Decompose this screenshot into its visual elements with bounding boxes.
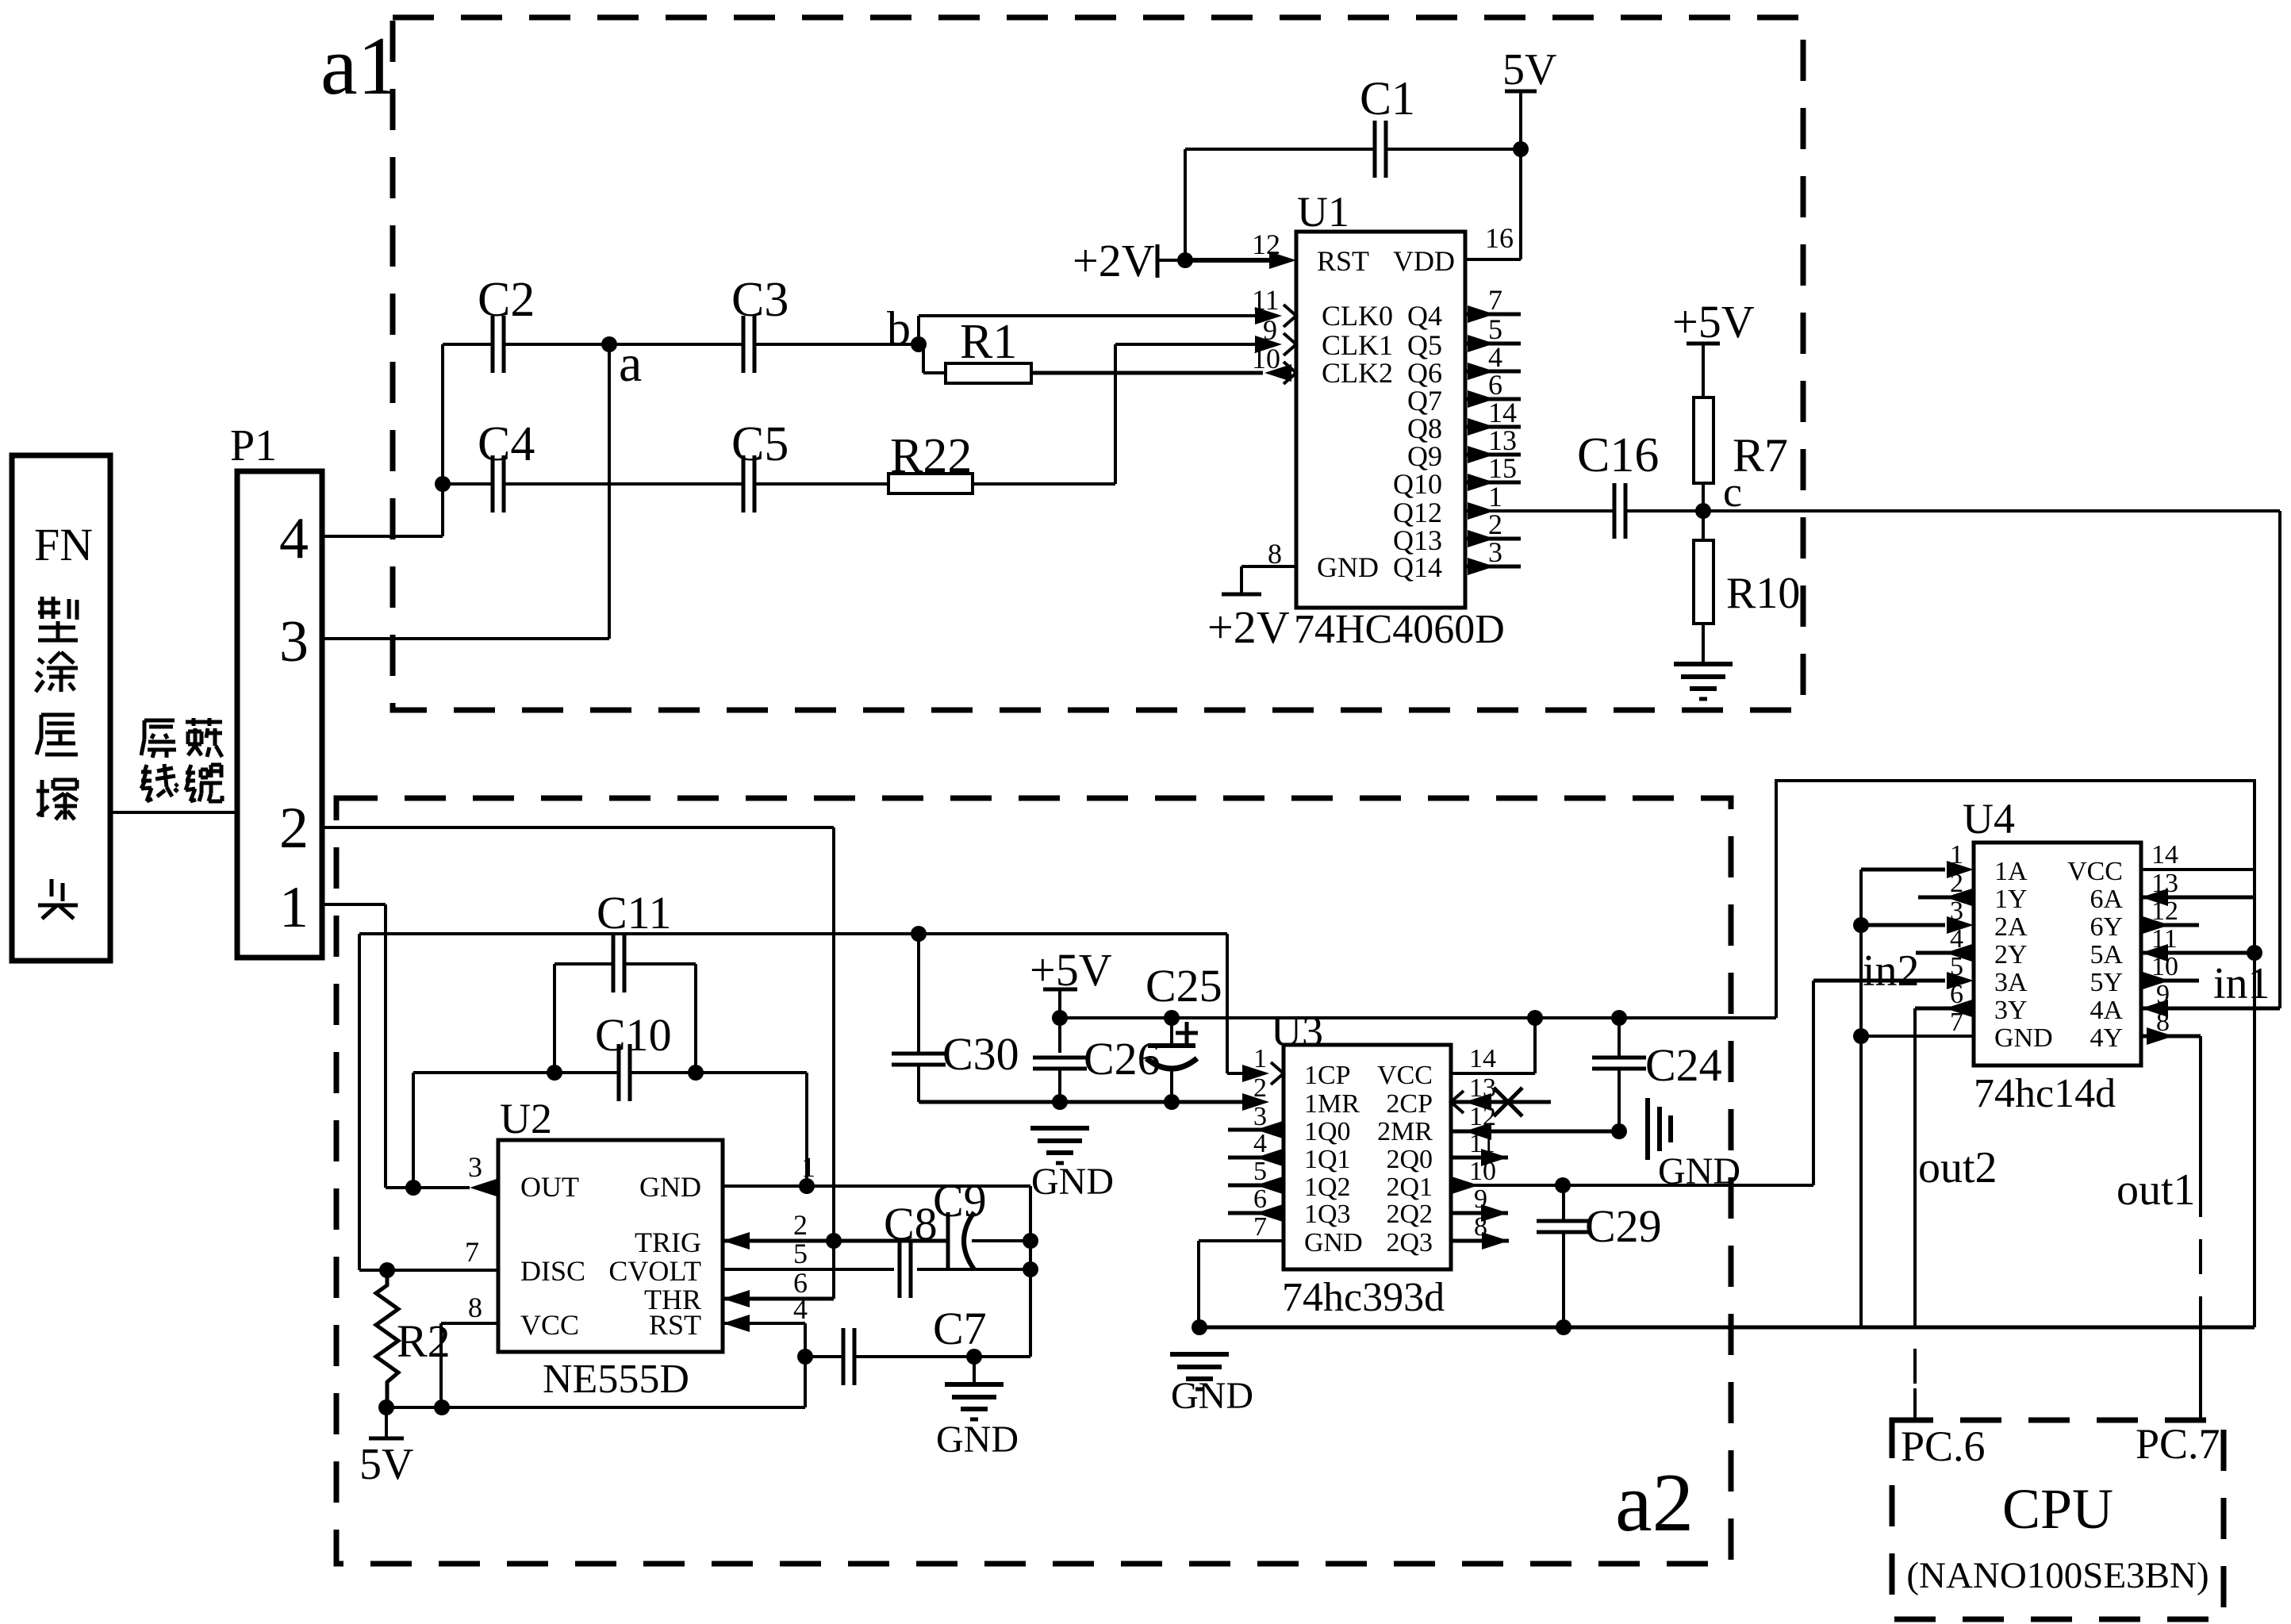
wire U4 4A pin9 (in1) (2141, 1007, 2280, 1011)
wire C10/C11 to pin1 GND (805, 1073, 808, 1186)
wire 5V drop (1519, 91, 1522, 149)
svg-text:2Q0: 2Q0 (1386, 1145, 1433, 1174)
resistor R7 (1694, 397, 1713, 483)
wire C11 right leg (694, 964, 697, 1073)
svg-text:6A: 6A (2090, 885, 2123, 914)
wire to 5V terminal (385, 1407, 388, 1438)
wire GND pin1 (723, 1184, 1030, 1188)
svg-text:in1: in1 (2213, 959, 2270, 1008)
wire C10 row right (630, 1071, 807, 1074)
junction U4 pin11 (2247, 945, 2262, 961)
wire b to CLK0 pin11 (919, 314, 1266, 317)
svg-text:CPU: CPU (2002, 1477, 2113, 1541)
wire C1 to 5V (1386, 148, 1521, 151)
svg-text:+2V: +2V (1207, 601, 1290, 653)
wire FN probe to P1 (110, 811, 237, 814)
wire down to 1CP (1226, 934, 1229, 1073)
svg-text:7: 7 (1253, 1212, 1267, 1242)
capacitor C5 (742, 455, 746, 513)
wire up to CLK1 row (1114, 344, 1117, 484)
no-connect X on pin13 (1494, 1088, 1522, 1116)
svg-text:7: 7 (465, 1236, 479, 1268)
wire node a vertical (608, 344, 611, 639)
capacitor C16 (1613, 483, 1617, 539)
svg-text:C2: C2 (478, 273, 535, 327)
capacitor C26 (1033, 1056, 1087, 1060)
svg-text:GND: GND (1031, 1161, 1114, 1203)
svg-text:VCC: VCC (520, 1309, 579, 1341)
junction +5V rail (1052, 1010, 1068, 1026)
svg-text:C10: C10 (595, 1009, 672, 1061)
svg-text:5A: 5A (2090, 940, 2123, 969)
wire C5 to R22 (754, 482, 888, 486)
wire to C1 (1185, 148, 1375, 151)
svg-text:4: 4 (279, 506, 309, 571)
wire +5V rail to U4 VCC (up/over/down) (1776, 781, 2255, 1327)
svg-text:U1: U1 (1297, 188, 1349, 236)
wire to C7 (805, 1355, 842, 1358)
module box a1 (dashed) (393, 17, 1803, 710)
junction OUT node (405, 1180, 421, 1196)
ground (U3 pin7) (1170, 1352, 1229, 1357)
svg-text:1: 1 (1488, 481, 1502, 513)
5V terminal tick (369, 1437, 404, 1441)
wire C29 bottom (1562, 1232, 1565, 1327)
svg-text:U4: U4 (1963, 795, 2015, 843)
wire VCC pin8 (441, 1322, 498, 1325)
wire right vertical (pin1 to C7 row) (1029, 1186, 1032, 1357)
svg-text:74hc393d: 74hc393d (1282, 1275, 1445, 1320)
svg-text:CLK1: CLK1 (1322, 329, 1393, 361)
junction C7/GND (966, 1349, 982, 1365)
wire 2Q0 pin11 stub (1451, 1156, 1508, 1160)
svg-text:2: 2 (793, 1209, 808, 1241)
svg-text:out2: out2 (1918, 1143, 1997, 1192)
svg-text:3: 3 (1488, 536, 1502, 568)
wire U4 6Y pin12 stub (2141, 923, 2199, 927)
svg-text:DISC: DISC (520, 1255, 585, 1287)
svg-text:15: 15 (1488, 452, 1517, 484)
svg-text:2Y: 2Y (1994, 940, 2028, 969)
wire DISC net left vertical (358, 934, 361, 1270)
junction C24 bottom (1611, 1123, 1627, 1139)
svg-text:14: 14 (1488, 397, 1517, 428)
svg-text:C29: C29 (1585, 1200, 1662, 1252)
wire C10 row left (413, 1071, 619, 1074)
ground (C26) (1030, 1126, 1089, 1131)
wire R10 to ground (1702, 624, 1705, 664)
wire U4 2Y pin4 stub (1916, 951, 1974, 955)
wire R22 right (973, 482, 1115, 486)
svg-text:U2: U2 (500, 1095, 552, 1142)
wire C7 right (855, 1355, 1030, 1358)
svg-text:Q10: Q10 (1393, 468, 1442, 500)
wire +5V to R7 (1702, 344, 1705, 397)
resistor R2 (zigzag) (376, 1270, 398, 1407)
resistor R1 (946, 363, 1031, 383)
ground (C7) (945, 1382, 1004, 1387)
wire U4 5Y pin10 stub (2141, 979, 2199, 983)
svg-text:Q9: Q9 (1407, 440, 1442, 472)
U1 right output pins Q4..Q14 (1465, 313, 1521, 317)
capacitor C3 (742, 316, 746, 373)
svg-text:R22: R22 (890, 429, 972, 483)
svg-text:2MR: 2MR (1377, 1117, 1433, 1146)
svg-text:5V: 5V (359, 1440, 413, 1489)
wire CVOLT pin5 to C8 (723, 1268, 894, 1271)
wire U4 5A pin11 (2141, 951, 2255, 955)
wire C1 left leg (1184, 149, 1187, 260)
svg-text:Q8: Q8 (1407, 413, 1442, 444)
svg-text:8: 8 (468, 1292, 482, 1323)
svg-text:1MR: 1MR (1304, 1089, 1360, 1119)
wire U4 1Y pin2 stub (1918, 896, 1974, 900)
5V terminal bar (1505, 90, 1537, 94)
svg-text:TRIG: TRIG (635, 1227, 701, 1258)
wire TRIG pin2 (723, 1239, 948, 1243)
wire GND rail long (1199, 1326, 2255, 1330)
wire C4 to C5 (504, 482, 743, 486)
svg-text:5: 5 (1488, 313, 1502, 345)
wire Q12 pin1 to C16 (1465, 509, 1614, 513)
wire to ground (C7) (973, 1357, 976, 1384)
svg-text:C8: C8 (884, 1198, 938, 1250)
svg-text:1Q3: 1Q3 (1304, 1200, 1351, 1229)
svg-text:74hc14d: 74hc14d (1974, 1071, 2116, 1116)
svg-text:GND: GND (1171, 1375, 1253, 1417)
wire +5V rail (1060, 1016, 1776, 1019)
junction U3 GND to rail (1192, 1319, 1207, 1335)
svg-text:C3: C3 (731, 273, 789, 327)
svg-text:C30: C30 (942, 1028, 1019, 1080)
svg-text:7: 7 (1488, 284, 1502, 316)
junction 1MR/GND (1052, 1094, 1068, 1110)
wire in2 to 3A pin5 (1813, 979, 1945, 983)
junction R2 bottom (378, 1399, 394, 1415)
wire VDD pin16 (1465, 258, 1521, 261)
svg-text:C5: C5 (731, 417, 789, 471)
capacitor C29 (1537, 1219, 1591, 1223)
shielded-cable label 屏蔽线缆 (144, 719, 175, 723)
arrow+chevron CLK2 (out) (1284, 362, 1296, 384)
wire RST pin4 (723, 1322, 805, 1325)
svg-text:FN: FN (34, 519, 93, 570)
junction C7 left (797, 1349, 813, 1365)
wire P1 pin1 (322, 903, 386, 906)
svg-text:1CP: 1CP (1304, 1061, 1351, 1090)
svg-text:2CP: 2CP (1386, 1089, 1433, 1119)
wire U3 2MR pin12 (1451, 1130, 1619, 1134)
resistor R10 (1694, 540, 1713, 624)
svg-text:PC.7: PC.7 (2136, 1420, 2220, 1468)
svg-text:13: 13 (1488, 424, 1517, 456)
svg-text:b: b (887, 302, 911, 355)
svg-text:3A: 3A (1994, 968, 2028, 997)
junction pin7 (1853, 1028, 1869, 1044)
wire in2 vertical (1812, 981, 1815, 1185)
svg-text:CLK0: CLK0 (1322, 300, 1393, 332)
wire U3 VCC pin14 (1451, 1072, 1535, 1075)
svg-text:C7: C7 (933, 1303, 987, 1354)
svg-text:GND: GND (936, 1419, 1019, 1461)
svg-text:P1: P1 (230, 421, 277, 470)
wire U4 6A pin13 (2141, 896, 2255, 900)
node c (1695, 503, 1711, 519)
svg-text:+5V: +5V (1672, 296, 1755, 347)
wire C30 bottom (917, 1065, 920, 1102)
svg-text:1Y: 1Y (1994, 885, 2028, 914)
wire C9 right (972, 1239, 1030, 1242)
junction C29/GND rail (1556, 1319, 1571, 1335)
chevron CLK1 (1284, 333, 1296, 355)
junction TRIG right (1023, 1233, 1038, 1249)
node a (601, 336, 617, 352)
wire 2Q1 pin10 to in2 (1451, 1184, 1813, 1187)
junction C30 (911, 926, 927, 942)
wire b down to R1 (922, 344, 925, 373)
svg-text:2Q2: 2Q2 (1386, 1200, 1433, 1229)
wire b stub up (917, 316, 920, 344)
wire R7 to R10 (1702, 483, 1705, 540)
capacitor C1 (1373, 121, 1377, 178)
svg-text:GND: GND (1304, 1228, 1363, 1257)
ground (R10) (1674, 662, 1733, 666)
connector P1 box (237, 471, 322, 958)
svg-text:R7: R7 (1733, 429, 1788, 482)
wire U3 2CP pin13 stub (1451, 1100, 1551, 1104)
+5V terminal bar (mid) (1043, 988, 1077, 992)
svg-text:out1: out1 (2116, 1165, 2196, 1215)
svg-text:C11: C11 (597, 887, 672, 939)
svg-text:C1: C1 (1360, 72, 1415, 125)
capacitor C10 (617, 1044, 621, 1101)
svg-text:5V: 5V (1502, 45, 1556, 94)
wire U4 VCC pin14 (2141, 868, 2255, 871)
junction pin1/C10C11 (799, 1178, 815, 1194)
svg-text:Q4: Q4 (1407, 300, 1442, 332)
wire OUT node up (412, 1073, 415, 1188)
svg-text:2Q3: 2Q3 (1386, 1228, 1433, 1257)
wire P1 pin3 to node a (322, 637, 609, 640)
wire out1 to CPU PC.7 (2199, 1036, 2202, 1182)
capacitor C9 (curved plate) (946, 1212, 950, 1269)
svg-text:GND: GND (639, 1171, 701, 1203)
svg-text:RST: RST (1317, 245, 1369, 277)
svg-text:Q12: Q12 (1393, 497, 1442, 528)
wire P1 pin4 to C2/C4 node (322, 535, 443, 538)
svg-text:C9: C9 (933, 1175, 987, 1227)
svg-text:4A: 4A (2090, 996, 2123, 1025)
wire C24 bottom (1618, 1070, 1621, 1131)
wire C8 to right vertical (917, 1268, 1030, 1271)
wire P1 pin2 toward TRIG (322, 826, 834, 829)
wire THR pin6 (723, 1297, 834, 1301)
IC U1 74HC4060D box (1296, 232, 1465, 608)
junction C4 branch (435, 476, 451, 492)
wire +2V to RST pin12 (1185, 258, 1269, 263)
svg-text:3: 3 (468, 1151, 482, 1183)
svg-text:1: 1 (279, 875, 309, 940)
svg-text:4Y: 4Y (2090, 1023, 2123, 1053)
chevron CLK0 (1284, 305, 1296, 327)
svg-text:+5V: +5V (1030, 944, 1112, 996)
svg-text:C24: C24 (1645, 1039, 1722, 1091)
wire C2 to C3 via node a (504, 343, 743, 346)
junction C25/1MR (1164, 1094, 1180, 1110)
junction TRIG/P1pin2 (826, 1233, 842, 1249)
wire U4 GND net vertical (1859, 870, 1863, 1327)
svg-text:5: 5 (1253, 1157, 1267, 1186)
resistor R22 (888, 474, 973, 493)
svg-text:CLK2: CLK2 (1322, 357, 1393, 389)
IC U3 74hc393d box (1284, 1045, 1451, 1269)
svg-text:6Y: 6Y (2090, 912, 2123, 942)
wire DISC net long row (359, 932, 1227, 935)
FN probe box (12, 455, 110, 961)
svg-text:4: 4 (1488, 341, 1502, 373)
wire to U2 OUT (386, 1186, 470, 1189)
svg-text:GND: GND (1994, 1023, 2053, 1053)
svg-text:1Q2: 1Q2 (1304, 1173, 1351, 1202)
wire to C2 (443, 343, 493, 346)
wire C25 bottom (1170, 1067, 1173, 1102)
svg-text:a1: a1 (320, 19, 399, 112)
module box a2 (dashed) (336, 798, 1731, 1564)
svg-text:14: 14 (2151, 840, 2178, 870)
junction C24 (1611, 1010, 1627, 1026)
junction VCC drop (434, 1399, 450, 1415)
svg-text:R10: R10 (1726, 569, 1800, 618)
+5V terminal bar (R7) (1687, 342, 1720, 346)
wire out2 to CPU PC.6 (1913, 1008, 1917, 1292)
svg-text:(NANO100SE3BN): (NANO100SE3BN) (1906, 1555, 2208, 1596)
svg-text:OUT: OUT (520, 1171, 579, 1203)
svg-text:CVOLT: CVOLT (608, 1255, 701, 1287)
IC U2 NE555D box (498, 1140, 723, 1352)
svg-text:6: 6 (1253, 1184, 1267, 1214)
svg-text:4: 4 (1253, 1129, 1267, 1158)
svg-text:16: 16 (1485, 222, 1514, 254)
wire C26 to GND row (1058, 1069, 1061, 1102)
wire VDD pin16 vertical (1519, 149, 1522, 259)
capacitor C7 (842, 1328, 846, 1385)
rotated ground (C24/2MR) (1645, 1098, 1650, 1160)
svg-text:2A: 2A (1994, 912, 2028, 942)
wire R1 to CLK2 pin10 (1031, 371, 1263, 375)
svg-text:VDD: VDD (1393, 245, 1455, 277)
svg-text:5Y: 5Y (2090, 968, 2123, 997)
junction +2V/C1 (1177, 252, 1193, 268)
wire vertical C2/C4 branch (441, 344, 444, 536)
arrow pin12 (1269, 251, 1296, 269)
wire U4 pin1 (1861, 868, 1945, 872)
wire U4 2A pin3 (1861, 923, 1945, 927)
C25 polarity + (1176, 1031, 1198, 1035)
svg-text:a: a (619, 335, 642, 393)
wire into CLK1 pin9 (1115, 343, 1264, 346)
wire U4 4Y pin8 (out1) (2141, 1035, 2201, 1039)
capacitor C11 (612, 935, 616, 992)
wire pin4 vertical (804, 1323, 807, 1407)
junction R2 top (379, 1262, 395, 1278)
svg-text:3: 3 (279, 609, 309, 674)
IC U4 74hc14d box (1974, 843, 2141, 1065)
wire C30 top (917, 934, 920, 1052)
+2V terminal tick (pin12) (1156, 244, 1160, 278)
wire U4 3Y pin6 (out2) (1915, 1007, 1974, 1011)
wire DISC pin7 (359, 1269, 498, 1272)
svg-text:2: 2 (279, 796, 309, 861)
svg-text:R1: R1 (960, 315, 1017, 369)
svg-text:Q6: Q6 (1407, 357, 1442, 389)
wire pin1 vertical (384, 904, 387, 1188)
capacitor C30 (892, 1052, 946, 1056)
capacitor C4 (491, 455, 495, 513)
svg-text:C4: C4 (478, 417, 535, 471)
svg-text:RST: RST (649, 1309, 701, 1341)
svg-text:Q5: Q5 (1407, 329, 1442, 361)
svg-text:GND: GND (1317, 551, 1379, 583)
svg-text:1A: 1A (1994, 857, 2028, 886)
wire C24 top (1618, 1018, 1621, 1057)
U2 OUT arrow pin3 (470, 1179, 497, 1196)
node b (911, 336, 927, 352)
svg-text:VCC: VCC (1377, 1061, 1433, 1090)
capacitor C8 (898, 1241, 902, 1298)
svg-text:1Q0: 1Q0 (1304, 1117, 1351, 1146)
svg-text:U3: U3 (1271, 1008, 1323, 1055)
wire C29 top (1562, 1185, 1565, 1220)
junction C10/C11 left (547, 1065, 562, 1081)
wire into 1CP pin1 (1227, 1072, 1261, 1075)
svg-text:1Q1: 1Q1 (1304, 1145, 1351, 1174)
wire 2Q2 pin9 stub (1451, 1211, 1508, 1215)
wire 1MR row (GND net) (919, 1100, 1261, 1104)
U3 arrows (1242, 1065, 1269, 1082)
svg-text:NE555D: NE555D (543, 1357, 689, 1402)
svg-text:+2V: +2V (1073, 235, 1155, 286)
svg-text:3Y: 3Y (1994, 996, 2028, 1025)
CPU box (dashed) (1892, 1420, 2224, 1619)
svg-text:2Q1: 2Q1 (1386, 1173, 1433, 1202)
svg-text:74HC4060D: 74HC4060D (1294, 607, 1505, 652)
svg-text:6: 6 (1488, 369, 1502, 401)
svg-text:PC.6: PC.6 (1901, 1422, 1986, 1470)
svg-text:in2: in2 (1863, 946, 1920, 996)
svg-text:Q14: Q14 (1393, 551, 1442, 583)
svg-text:14: 14 (1469, 1044, 1496, 1073)
svg-text:VCC: VCC (2067, 857, 2123, 886)
svg-text:C16: C16 (1577, 428, 1659, 482)
svg-text:Q7: Q7 (1407, 385, 1442, 417)
wire C11 left leg (553, 964, 556, 1073)
capacitor C24 (1592, 1056, 1646, 1060)
svg-text:2: 2 (1488, 509, 1502, 540)
wire 2Q3 pin8 stub (1451, 1239, 1509, 1243)
capacitor C25 plate (1148, 1043, 1195, 1048)
junction U3 VCC (1527, 1010, 1543, 1026)
junction C10/C11 right (688, 1065, 704, 1081)
junction C29 (1555, 1177, 1571, 1193)
wire GND pin8 (1241, 565, 1296, 568)
svg-text:C25: C25 (1145, 960, 1222, 1012)
wire U3 GND pin7 (1199, 1239, 1284, 1242)
wire node c to in1 drop (1625, 509, 2280, 513)
junction 5V/C1 (1513, 141, 1529, 157)
junction C25 top (1164, 1010, 1180, 1026)
wire U4 GND pin7 (1861, 1035, 1974, 1038)
capacitor C25 curved plate (1146, 1058, 1197, 1069)
